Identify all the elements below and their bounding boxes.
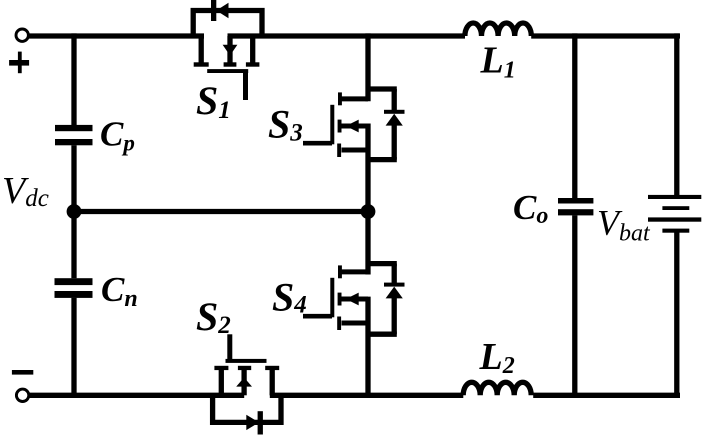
wire top rail middle segment <box>228 33 466 38</box>
S1 left (drain) stub <box>199 36 204 64</box>
S3 drain bar <box>340 96 368 101</box>
transistor S2 (MOSFET, horizontal, on bottom rail) <box>213 334 281 434</box>
svg-text:S2: S2 <box>196 294 231 339</box>
svg-text:L2: L2 <box>479 336 515 379</box>
terminal bottom-left circle <box>16 389 28 401</box>
wire mid bus middle (S3 source to S4 drain) <box>365 124 370 275</box>
svg-text:Co: Co <box>513 188 548 229</box>
svg-text:S1: S1 <box>196 78 231 124</box>
S3 diode cathode bar <box>384 110 405 114</box>
S2 body pad <box>238 366 251 370</box>
S1 source pad <box>246 62 260 66</box>
S4 drain bar <box>340 269 368 274</box>
wire mid bus bottom (S4 source to bottom rail) <box>365 297 370 398</box>
S2 body diode loop <box>213 395 281 422</box>
wire left bus middle (Cp to Cn) <box>71 145 76 278</box>
capacitor Co <box>558 198 593 215</box>
svg-text:Cn: Cn <box>101 270 138 312</box>
transistor S3 (MOSFET, vertical, upper leg) <box>303 89 405 160</box>
node Vdc midpoint junction dot <box>67 204 82 219</box>
svg-text:Vdc: Vdc <box>2 170 49 212</box>
S2 body stub with arrow <box>241 367 246 395</box>
S4 gate lead <box>303 314 332 319</box>
S3 body bar with arrow <box>342 124 369 129</box>
plus sign <box>9 52 29 74</box>
S3 drain pad <box>338 92 342 105</box>
minus sign <box>12 370 33 375</box>
S1 body stub with arrow <box>227 36 232 64</box>
wire bottom rail right segment <box>533 393 680 398</box>
wire Vbat bus upper <box>674 33 679 195</box>
svg-text:Vbat: Vbat <box>597 203 651 247</box>
S3 diode bottom bar <box>368 157 397 162</box>
S4 diode cathode bar <box>384 283 405 287</box>
S3 body pad <box>338 120 342 133</box>
battery Vbat <box>648 195 701 233</box>
wire bottom rail middle segment <box>270 393 464 398</box>
wire mid bus top (rail to S3 drain) <box>365 33 370 101</box>
wire Vbat bus lower <box>674 231 679 398</box>
transistor S4 (MOSFET, vertical, lower leg) <box>303 264 405 335</box>
wire top rail left segment <box>29 33 205 38</box>
S3 diode top bar <box>368 86 397 91</box>
S1 diode triangle <box>216 3 228 18</box>
S3 source bar <box>342 148 369 153</box>
S4 diode top bar <box>368 261 397 266</box>
transistor S1 (MOSFET, horizontal, on top rail) <box>193 0 262 100</box>
S3 diode vertical upper <box>392 89 397 110</box>
S4 diode vertical lower <box>392 297 397 334</box>
S4 diode triangle <box>386 287 403 299</box>
S2 diode triangle <box>246 415 259 430</box>
S1 body diode loop <box>193 11 262 37</box>
capacitor Cn <box>55 278 93 298</box>
S4 source bar <box>342 321 369 326</box>
S1 body pad <box>224 62 237 66</box>
S3 diode triangle <box>386 114 403 126</box>
S1 drain pad <box>194 62 209 66</box>
S4 source pad <box>337 317 341 331</box>
svg-text:L1: L1 <box>480 40 516 84</box>
inductor L2 <box>463 382 531 395</box>
S4 drain pad <box>338 265 342 278</box>
svg-text:S3: S3 <box>268 102 303 147</box>
S2 gate bar <box>226 359 267 363</box>
terminal top-left circle <box>16 29 28 41</box>
S3 diode vertical lower <box>392 125 397 160</box>
S4 diode bottom bar <box>368 332 397 337</box>
wire Co bus upper <box>572 33 577 198</box>
inductor L1 <box>465 23 531 36</box>
svg-text:S4: S4 <box>272 275 307 320</box>
S4 diode vertical upper <box>392 264 397 284</box>
S2 diode cathode bar <box>258 411 263 434</box>
wire Co bus lower <box>572 215 577 398</box>
wire bottom rail left segment <box>30 393 245 398</box>
S3 gate bar <box>330 105 334 145</box>
S1 gate bar <box>207 69 248 73</box>
S1 gate lead <box>243 71 248 100</box>
S2 source stub <box>219 367 224 395</box>
node S3-S4 midpoint junction dot <box>361 204 376 219</box>
S2 source pad <box>214 366 228 370</box>
S4 gate bar <box>330 278 334 318</box>
capacitor Cp <box>55 125 93 145</box>
svg-text:Cp: Cp <box>100 115 135 156</box>
S2 drain stub <box>270 367 275 395</box>
S3 gate lead <box>303 141 332 146</box>
wire left bus upper (rail to Cp) <box>71 33 76 125</box>
S3 source pad <box>337 144 341 158</box>
S4 body pad <box>338 293 342 306</box>
wire middle node wire <box>74 209 368 214</box>
S2 gate lead <box>227 334 232 361</box>
wire left bus lower (Cn to bottom rail) <box>71 298 76 398</box>
S1 diode cathode bar <box>211 0 216 21</box>
wire top rail right segment <box>531 33 680 38</box>
S1 source stub <box>250 36 255 64</box>
S2 drain pad <box>265 366 279 370</box>
S4 body bar with arrow <box>342 297 369 302</box>
